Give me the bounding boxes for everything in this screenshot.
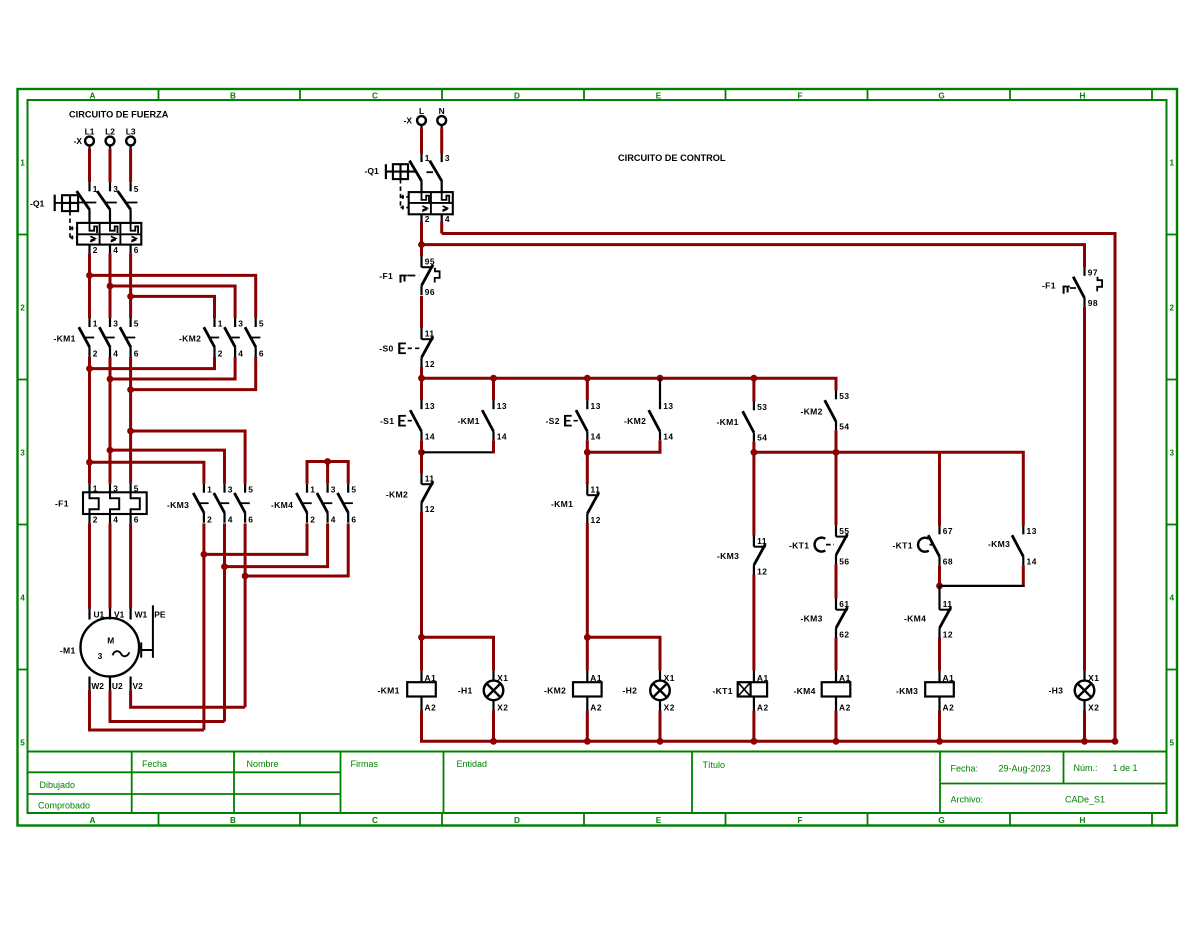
- svg-text:-S2: -S2: [546, 416, 560, 426]
- junction KM3-4 node: [221, 563, 228, 570]
- svg-text:-H1: -H1: [458, 685, 473, 695]
- wire L1 Q1 to KM1: [88, 253, 91, 318]
- contact -KM2 13-14: [649, 400, 674, 441]
- wire to KM2 interlock: [420, 452, 423, 473]
- svg-text:3: 3: [238, 319, 243, 329]
- wire L3 to Q1: [129, 149, 132, 183]
- thermal symbol F1 95-96: [399, 268, 439, 283]
- svg-text:CADe_S1: CADe_S1: [1065, 795, 1105, 805]
- svg-text:67: 67: [943, 526, 953, 536]
- svg-text:A2: A2: [757, 702, 769, 712]
- terminal L3: [126, 127, 136, 149]
- svg-text:Título: Título: [703, 760, 726, 770]
- svg-text:1: 1: [207, 484, 212, 494]
- svg-text:97: 97: [1088, 268, 1098, 278]
- junction KM1-2: [86, 365, 93, 372]
- svg-text:B: B: [230, 816, 236, 825]
- junction bus: [584, 375, 591, 382]
- contactor -KM1 power poles: [54, 318, 140, 359]
- wire L3 to KM3 pin5: [131, 431, 246, 484]
- stop button -S0 contact: [422, 328, 436, 369]
- svg-text:1: 1: [20, 159, 25, 168]
- terminal L: [417, 106, 426, 128]
- svg-text:X2: X2: [1088, 703, 1099, 713]
- svg-text:-F1: -F1: [1042, 280, 1056, 290]
- breaker -Q1 thermal-magnetic unit: [77, 223, 141, 245]
- timed contact -KT1 55-56: [836, 525, 850, 566]
- svg-text:4: 4: [113, 245, 118, 255]
- svg-text:-Q1: -Q1: [30, 199, 45, 209]
- wire KM4 coil to bus: [835, 711, 838, 742]
- wire KM3-2 to KM4-2: [204, 523, 307, 554]
- junction S1-14: [418, 449, 425, 456]
- timed contact -KT1 67-68: [928, 526, 953, 567]
- wire to KM1 interlock: [586, 452, 589, 484]
- wire bus to KM1-53: [752, 378, 755, 401]
- wire KM1 coil to bus: [420, 711, 423, 742]
- svg-text:5: 5: [259, 319, 264, 329]
- control bus: [422, 378, 837, 390]
- wire KM2-12 to KM1 coil: [420, 512, 423, 671]
- svg-text:B: B: [230, 91, 236, 100]
- breaker -Q1 poles: [77, 182, 139, 223]
- svg-text:-H3: -H3: [1049, 685, 1064, 695]
- svg-text:C: C: [372, 91, 378, 100]
- svg-text:G: G: [938, 816, 944, 825]
- wire KM2-6 join: [131, 357, 256, 390]
- junction KM1-6: [127, 386, 134, 393]
- svg-text:13: 13: [591, 401, 601, 411]
- wire KM1-12 to KM2 coil: [586, 523, 589, 671]
- svg-text:53: 53: [839, 391, 849, 401]
- coil -KM3: [925, 671, 954, 713]
- svg-text:V2: V2: [133, 681, 144, 691]
- wire bus to KM2-13: [659, 378, 661, 400]
- breaker -Q1 control trip linkage: [401, 179, 410, 209]
- svg-text:Firmas: Firmas: [351, 759, 379, 769]
- svg-text:4: 4: [1170, 594, 1175, 603]
- column letters bottom: [90, 816, 1086, 825]
- wire KM2 coil to bus: [586, 711, 589, 742]
- svg-text:C: C: [372, 816, 378, 825]
- breaker -Q1 control thermal-magnetic unit: [409, 192, 453, 214]
- svg-text:3: 3: [20, 449, 25, 458]
- wire KM1 out L2: [109, 357, 112, 484]
- wire KM3-62 to KM4 coil: [835, 638, 838, 671]
- junction neutral bus: [833, 738, 840, 745]
- column letters top: [90, 91, 1086, 100]
- svg-text:A: A: [90, 91, 96, 100]
- link S1-14 to KM1-14: [422, 451, 495, 453]
- svg-text:W2: W2: [91, 681, 104, 691]
- wire KM3 coil to bus: [938, 711, 941, 742]
- coil -KM4: [822, 671, 851, 713]
- svg-text:13: 13: [497, 401, 507, 411]
- breaker -Q1 control actuator: [386, 164, 416, 179]
- row numbers left: [20, 159, 25, 748]
- wire KM4 star jumper: [307, 462, 348, 484]
- svg-text:6: 6: [134, 245, 139, 255]
- svg-text:4: 4: [228, 514, 233, 524]
- svg-text:2: 2: [425, 214, 430, 224]
- svg-text:-KM4: -KM4: [271, 500, 293, 510]
- svg-text:L: L: [419, 106, 424, 116]
- svg-text:L3: L3: [126, 127, 136, 137]
- motor -M1: [60, 605, 166, 691]
- svg-text:D: D: [514, 816, 520, 825]
- svg-text:-KM3: -KM3: [896, 686, 918, 696]
- svg-text:6: 6: [248, 514, 253, 524]
- start button -S1 actuator: [399, 415, 415, 426]
- svg-text:-KM2: -KM2: [801, 406, 823, 416]
- lamp -H3: [1075, 671, 1100, 713]
- row numbers right: [1170, 159, 1175, 748]
- svg-text:-S1: -S1: [380, 416, 394, 426]
- junction KM3-2 node: [201, 551, 208, 558]
- svg-text:12: 12: [591, 515, 601, 525]
- wire node V2 riser: [244, 576, 247, 707]
- svg-text:L2: L2: [105, 127, 115, 137]
- wire N rail: [442, 234, 1115, 742]
- junction S2-14: [584, 449, 591, 456]
- svg-text:3: 3: [331, 484, 336, 494]
- row reference ticks left: [18, 235, 28, 670]
- svg-text:A1: A1: [590, 673, 602, 683]
- svg-text:Dibujado: Dibujado: [40, 780, 76, 790]
- svg-text:Archivo:: Archivo:: [951, 795, 984, 805]
- wire V2 bottom link: [131, 690, 246, 707]
- wire L1 to Q1: [88, 149, 91, 183]
- svg-text:CIRCUITO DE CONTROL: CIRCUITO DE CONTROL: [618, 153, 726, 163]
- svg-text:95: 95: [425, 257, 435, 267]
- wire node U2 riser: [223, 567, 226, 722]
- contactor -KM4 power poles: [271, 484, 357, 525]
- breaker -Q1 trip linkage: [70, 211, 77, 239]
- junction neutral bus: [490, 738, 497, 745]
- svg-text:3: 3: [1170, 449, 1175, 458]
- svg-text:H: H: [1080, 816, 1086, 825]
- svg-text:A1: A1: [943, 673, 955, 683]
- svg-text:53: 53: [757, 402, 767, 412]
- svg-text:3: 3: [445, 153, 450, 163]
- wire F1 to motor W1: [129, 523, 132, 608]
- wire KM3-14 down: [1022, 565, 1025, 587]
- svg-text:D: D: [514, 91, 520, 100]
- wire L2 Q1 to KM1: [109, 253, 112, 318]
- wire L1 to KM3 pin1: [90, 462, 204, 484]
- svg-text:55: 55: [839, 526, 849, 536]
- contact -KM2 53-54: [825, 391, 850, 432]
- wire H3 to bus: [1083, 711, 1086, 742]
- wire Q1 to F1-95: [420, 222, 423, 257]
- svg-text:5: 5: [351, 484, 356, 494]
- svg-text:U2: U2: [112, 681, 123, 691]
- svg-text:5: 5: [20, 739, 25, 748]
- sheet outer border: [18, 89, 1178, 826]
- interlock -KM3 61-62: [836, 599, 850, 640]
- row reference ticks right: [1167, 235, 1178, 670]
- wire N down: [440, 222, 443, 234]
- wire KM3-12 to KT1 coil: [752, 575, 755, 671]
- breaker -Q1 control poles: [410, 153, 451, 192]
- link node to KM4-11: [938, 586, 940, 599]
- svg-text:1: 1: [93, 319, 98, 329]
- wire L2 to KM3 pin3: [110, 450, 225, 484]
- junction KM3-6 node: [242, 573, 249, 580]
- terminal L2: [105, 127, 115, 149]
- svg-text:G: G: [938, 91, 944, 100]
- junction bus: [490, 375, 497, 382]
- wire KM3-4 to KM4-4: [225, 523, 328, 566]
- junction rail E: [751, 449, 758, 456]
- wire KT1-68 down: [938, 565, 941, 586]
- svg-text:-KM3: -KM3: [167, 500, 189, 510]
- svg-text:2: 2: [93, 349, 98, 359]
- svg-text:4: 4: [331, 514, 336, 524]
- svg-text:F: F: [797, 816, 802, 825]
- junction bus: [657, 375, 664, 382]
- svg-text:4: 4: [113, 515, 118, 525]
- wire KM1 out L3: [129, 357, 132, 484]
- svg-text:X1: X1: [1088, 673, 1099, 683]
- svg-text:A2: A2: [590, 702, 602, 712]
- junction L3 swap: [127, 293, 134, 300]
- svg-text:E: E: [656, 816, 662, 825]
- breaker -Q1 bottom pins 2 4 6: [90, 245, 140, 255]
- coil -KM2: [573, 671, 602, 713]
- wire KT1 coil to bus: [752, 711, 755, 742]
- start button -S2 contact: [576, 400, 601, 441]
- wire F1-98 to H3: [1083, 307, 1086, 671]
- svg-text:98: 98: [1088, 298, 1098, 308]
- svg-text:13: 13: [425, 401, 435, 411]
- svg-text:6: 6: [259, 349, 264, 359]
- wire rail to KM3-11: [752, 452, 755, 535]
- svg-text:-F1: -F1: [55, 499, 69, 509]
- svg-text:3: 3: [98, 651, 103, 661]
- wire F1 to motor V1: [109, 523, 112, 608]
- wire U2 bottom link: [110, 690, 225, 721]
- svg-text:-M1: -M1: [60, 646, 76, 656]
- svg-text:4: 4: [20, 594, 25, 603]
- junction neutral bus: [657, 738, 664, 745]
- wire KM3-6 down: [244, 523, 247, 576]
- svg-text:11: 11: [943, 599, 953, 609]
- svg-text:L1: L1: [85, 127, 95, 137]
- interlock -KM2 11-12: [422, 473, 436, 514]
- junction bus: [418, 375, 425, 382]
- wire node W2 riser: [202, 554, 205, 730]
- svg-text:X1: X1: [664, 673, 675, 683]
- wire KM1-14 stub: [492, 440, 495, 453]
- wire L3 to KM2 pin1: [131, 296, 215, 318]
- junction KM4 star jumper: [324, 458, 331, 465]
- svg-text:A1: A1: [757, 673, 769, 683]
- svg-text:6: 6: [134, 349, 139, 359]
- svg-text:X2: X2: [664, 703, 675, 713]
- contact -KM3 13-14: [1012, 526, 1037, 567]
- junction L1 swap: [86, 272, 93, 279]
- svg-text:N: N: [439, 106, 445, 116]
- timer arc KT1 67-68: [918, 538, 935, 552]
- junction L node: [418, 241, 425, 248]
- svg-text:12: 12: [425, 504, 435, 514]
- wire KM3-6 to KM4-6: [245, 523, 348, 576]
- wire bus to KM1-13: [492, 378, 495, 400]
- wire KT1-56 to KM3-61: [835, 564, 838, 598]
- svg-text:2: 2: [20, 304, 25, 313]
- svg-text:A1: A1: [839, 673, 851, 683]
- wire S1-14 node: [420, 440, 423, 452]
- svg-text:11: 11: [425, 474, 435, 484]
- junction bus: [751, 375, 758, 382]
- wire branch to H1: [422, 637, 494, 670]
- svg-text:-X: -X: [74, 136, 83, 146]
- svg-text:-KT1: -KT1: [893, 540, 913, 550]
- svg-text:4: 4: [238, 349, 243, 359]
- svg-text:-KM3: -KM3: [801, 614, 823, 624]
- svg-text:5: 5: [1170, 739, 1175, 748]
- junction to KM3-1: [86, 459, 93, 466]
- svg-text:14: 14: [497, 431, 507, 441]
- wire rail to KT1-55: [835, 452, 838, 525]
- column reference ticks bottom: [159, 813, 1153, 826]
- svg-text:-KM2: -KM2: [544, 685, 566, 695]
- svg-text:2: 2: [207, 514, 212, 524]
- svg-text:56: 56: [839, 556, 849, 566]
- wire F1-96 to S0: [420, 296, 423, 328]
- svg-text:54: 54: [757, 432, 767, 442]
- wire rail to KT1-67: [938, 452, 941, 525]
- svg-text:-X: -X: [404, 116, 413, 126]
- svg-text:-KM4: -KM4: [794, 686, 816, 696]
- svg-text:-S0: -S0: [379, 343, 393, 353]
- interlock -KM4 11-12: [940, 599, 954, 640]
- junction to KM3-3: [107, 447, 114, 454]
- wire KM1-54 down: [752, 441, 755, 452]
- svg-text:12: 12: [943, 629, 953, 639]
- svg-text:X1: X1: [497, 673, 508, 683]
- wire KM2-4 join: [110, 357, 235, 379]
- svg-text:E: E: [656, 91, 662, 100]
- svg-text:Núm.:: Núm.:: [1074, 763, 1098, 773]
- coil -KT1 timer: [738, 671, 769, 713]
- start button -S2 actuator: [565, 415, 581, 426]
- junction neutral bus: [1112, 738, 1119, 745]
- junction rail F: [833, 449, 840, 456]
- junction neutral bus: [584, 738, 591, 745]
- junction to KM3-5: [127, 428, 134, 435]
- svg-text:A2: A2: [425, 702, 437, 712]
- thermal symbol F1 97-98: [1063, 277, 1103, 294]
- svg-text:-KM1: -KM1: [551, 499, 573, 509]
- svg-text:68: 68: [943, 556, 953, 566]
- svg-text:A2: A2: [839, 702, 851, 712]
- wire KM2-2 join: [90, 357, 215, 369]
- svg-text:-KM2: -KM2: [179, 333, 201, 343]
- wire L to Q1: [420, 128, 423, 153]
- wire L1 to KM2 pin5: [90, 275, 256, 318]
- title block grid: [28, 752, 1167, 814]
- svg-text:11: 11: [757, 536, 767, 546]
- junction neutral bus: [936, 738, 943, 745]
- wire N to Q1: [440, 128, 443, 153]
- column reference ticks top: [159, 89, 1153, 100]
- svg-text:Entidad: Entidad: [457, 759, 488, 769]
- wire KM2-54 down: [835, 430, 838, 452]
- junction H2 branch: [584, 634, 591, 641]
- wire F1 to motor U1: [88, 523, 91, 608]
- svg-text:-KM2: -KM2: [624, 416, 646, 426]
- svg-text:A1: A1: [425, 673, 437, 683]
- svg-text:Fecha:: Fecha:: [951, 764, 979, 774]
- svg-text:Comprobado: Comprobado: [38, 801, 90, 811]
- svg-text:2: 2: [93, 515, 98, 525]
- junction neutral bus: [751, 738, 758, 745]
- svg-text:-KM1: -KM1: [378, 685, 400, 695]
- svg-text:12: 12: [425, 359, 435, 369]
- svg-text:5: 5: [134, 184, 139, 194]
- contactor -KM3 power poles: [167, 484, 254, 525]
- wire L3 Q1 to KM1: [129, 253, 132, 318]
- svg-text:29-Aug-2023: 29-Aug-2023: [999, 764, 1051, 774]
- wire H2 to bus: [659, 711, 662, 742]
- wire KM3-4 down: [223, 523, 226, 566]
- neutral bus: [422, 711, 1116, 742]
- svg-text:A2: A2: [943, 702, 955, 712]
- wire KM1 out L1: [88, 357, 91, 484]
- svg-text:5: 5: [248, 484, 253, 494]
- wire S2-14 node: [586, 440, 589, 452]
- svg-text:3: 3: [113, 319, 118, 329]
- wire bus to S2: [586, 378, 589, 400]
- wire H1 to bus: [492, 711, 495, 742]
- interlock -KM3 11-12: [754, 536, 768, 577]
- wire L2 to Q1: [109, 149, 112, 183]
- svg-text:14: 14: [663, 431, 673, 441]
- interlock -KM1 11-12: [587, 484, 601, 525]
- wire L2 to KM2 pin3: [110, 286, 235, 318]
- svg-text:-KM3: -KM3: [717, 551, 739, 561]
- svg-text:11: 11: [591, 485, 601, 495]
- svg-text:2: 2: [93, 245, 98, 255]
- svg-text:H: H: [1080, 91, 1086, 100]
- svg-text:13: 13: [663, 401, 673, 411]
- svg-text:3: 3: [228, 484, 233, 494]
- svg-text:-KM1: -KM1: [717, 417, 739, 427]
- svg-text:6: 6: [134, 515, 139, 525]
- svg-text:2: 2: [310, 514, 315, 524]
- junction H1 branch: [418, 634, 425, 641]
- svg-text:2: 2: [218, 349, 223, 359]
- svg-text:-KM1: -KM1: [54, 333, 76, 343]
- stop button -S0 actuator: [399, 343, 420, 354]
- svg-text:-Q1: -Q1: [365, 166, 380, 176]
- start button -S1 contact: [410, 400, 435, 441]
- contact -KM1 13-14: [482, 400, 507, 441]
- svg-text:-KT1: -KT1: [713, 686, 733, 696]
- contactor -KM2 power poles: [179, 318, 264, 359]
- svg-text:5: 5: [134, 319, 139, 329]
- svg-text:1: 1: [310, 484, 315, 494]
- svg-text:13: 13: [1027, 526, 1037, 536]
- svg-text:M: M: [107, 635, 114, 645]
- svg-text:-KM3: -KM3: [988, 539, 1010, 549]
- lamp -H2: [650, 671, 675, 713]
- svg-text:W1: W1: [135, 610, 148, 620]
- svg-text:96: 96: [425, 287, 435, 297]
- wire KM3-2 down: [202, 523, 205, 554]
